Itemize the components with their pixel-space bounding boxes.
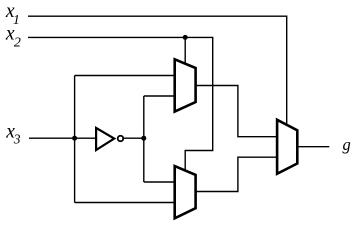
wire U4 output to g	[297, 146, 329, 148]
wire inverted lower branch to U3 input 0	[144, 181, 176, 183]
wire U2 output to U4 input 0	[196, 86, 278, 137]
wire inverter output	[122, 137, 144, 139]
wire x2 routed around U2 to select of U3	[28, 37, 213, 172]
multiplexer U3 (bottom 2-to-1 mux)	[175, 166, 196, 218]
output label g	[343, 135, 351, 154]
wire U3 output to U4 input 1	[196, 157, 278, 191]
multiplexer U2 (top 2-to-1 mux)	[175, 59, 196, 111]
junction dot x3	[72, 136, 77, 141]
wire x3 into inverter	[29, 137, 97, 139]
junction dot inverter output	[141, 136, 146, 141]
NOT gate U1	[96, 128, 123, 150]
wire x1 to select of U4	[28, 16, 287, 126]
input label x1	[5, 1, 20, 28]
wire x3 vertical branch	[74, 76, 76, 203]
multiplexer U4 (output 2-to-1 mux)	[277, 120, 297, 174]
svg-text:2: 2	[14, 36, 21, 51]
junction dot x2/select	[183, 35, 188, 40]
wire inverted vertical branch	[143, 96, 145, 182]
svg-text:3: 3	[13, 132, 21, 147]
input label x3	[5, 122, 20, 147]
wire x3 upper branch to U2 input 0	[75, 75, 176, 77]
wire x2 select stub to U2	[184, 37, 186, 65]
wire inverted upper branch to U2 input 1	[144, 95, 176, 97]
wire x3 lower branch to U3 input 1	[75, 202, 176, 204]
input label x2	[5, 24, 21, 51]
svg-text:g: g	[343, 135, 351, 154]
